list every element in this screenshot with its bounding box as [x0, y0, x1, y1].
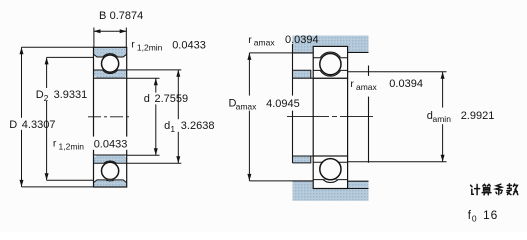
arrow D2 bottom — [45, 173, 49, 180]
arrow d bottom — [154, 148, 158, 155]
extension lines d1 — [127, 70, 182, 163]
svg-text:d: d — [144, 93, 150, 105]
outer ring lower (blue) — [94, 161, 127, 187]
housing lower (blue) — [293, 181, 369, 201]
label d 2.7559 — [142, 93, 188, 105]
svg-text:amax: amax — [236, 102, 258, 112]
arrow damin bottom — [441, 155, 445, 162]
label damin 2.9921 — [425, 108, 495, 125]
svg-text:D: D — [36, 89, 44, 101]
label D 4.3307 — [8, 118, 56, 131]
bearing side faces (middle verticals) — [313, 78, 347, 156]
label d1 3.2638 — [163, 119, 217, 134]
arrow D bottom — [20, 180, 24, 187]
label B 0.7874 — [99, 10, 143, 22]
svg-text:amin: amin — [433, 114, 452, 124]
label r1,2min 0.0433 (top) — [131, 39, 206, 53]
svg-text:d: d — [164, 120, 170, 132]
label Damax 4.0945 — [227, 96, 301, 112]
dimension line D2 — [46, 57, 48, 180]
svg-text:0.0433: 0.0433 — [94, 139, 128, 151]
svg-text:D: D — [9, 119, 17, 131]
housing upper (blue) — [293, 36, 369, 53]
svg-text:0.0433: 0.0433 — [172, 39, 206, 51]
bearing lower section (right drawing) — [313, 156, 347, 189]
arrow d1 bottom — [176, 156, 180, 163]
bore line upper — [94, 77, 127, 79]
shaft shoulder upper left (blue) — [293, 70, 311, 78]
label r1,2min 0.0433 (lower) — [52, 137, 130, 152]
svg-text:r: r — [350, 78, 354, 90]
svg-text:4.3307: 4.3307 — [22, 119, 56, 131]
svg-text:1: 1 — [170, 124, 175, 134]
extension lines damin — [348, 72, 447, 162]
label ramax 0.0394 (right) — [349, 76, 423, 92]
shaft bore line upper — [293, 77, 348, 79]
svg-text:1,2min: 1,2min — [59, 141, 85, 151]
label D2 3.9331 — [34, 88, 87, 103]
dimension line B — [94, 30, 127, 32]
bearing outline box — [94, 47, 127, 187]
arrow d top — [154, 78, 158, 85]
svg-text:B: B — [99, 10, 106, 22]
extension lines d — [127, 78, 160, 155]
label f0 16 — [468, 208, 499, 224]
figure right boundary segments — [368, 66, 370, 163]
extension lines D — [22, 47, 94, 187]
extension lines Damax — [249, 53, 292, 181]
arrow B left — [94, 29, 101, 33]
svg-text:r: r — [131, 39, 135, 51]
svg-text:2.7559: 2.7559 — [155, 93, 189, 105]
arrow D top — [20, 47, 24, 54]
svg-text:amax: amax — [254, 38, 276, 48]
dimension line damin — [442, 72, 444, 162]
svg-text:4.0945: 4.0945 — [266, 98, 300, 110]
glyph suan — [483, 184, 490, 186]
extension lines D2 — [47, 57, 94, 180]
outer ring upper (blue) — [94, 47, 127, 73]
centerline left bearing — [88, 116, 132, 118]
label ramax 0.0394 (top) — [248, 34, 318, 48]
svg-text:0.7874: 0.7874 — [110, 10, 144, 22]
arrow Damax bottom — [247, 174, 251, 181]
shaft shoulder lower left (blue) — [293, 156, 311, 163]
arrow d1 top — [176, 70, 180, 77]
svg-text:2: 2 — [44, 93, 49, 103]
inner ring upper (blue) — [94, 54, 127, 79]
svg-text:0: 0 — [472, 214, 477, 224]
svg-text:3.9331: 3.9331 — [54, 89, 88, 101]
glyph ji — [471, 185, 474, 194]
dimension line d1 — [177, 70, 179, 164]
arrow damin top — [441, 72, 445, 79]
bearing upper section (right drawing) — [313, 46, 347, 78]
ball lower — [102, 162, 119, 179]
arrow Damax top — [247, 53, 251, 60]
shaft bore line lower — [293, 155, 348, 157]
glyph shu — [507, 184, 512, 195]
bore line lower — [94, 154, 127, 156]
svg-text:2.9921: 2.9921 — [461, 110, 495, 122]
figure left boundary — [292, 44, 294, 163]
svg-text:0.0394: 0.0394 — [285, 34, 319, 46]
svg-text:3.2638: 3.2638 — [181, 120, 215, 132]
ball upper — [102, 55, 119, 72]
dimension line D — [21, 47, 23, 187]
glyph xi — [496, 184, 502, 190]
svg-text:r: r — [248, 34, 252, 46]
dimension B extension lines — [94, 28, 126, 48]
dimension line d — [155, 78, 157, 155]
svg-text:0.0394: 0.0394 — [389, 78, 423, 90]
arrow D2 top — [45, 57, 49, 64]
inner ring lower (blue) — [94, 155, 127, 181]
centerline right drawing — [287, 116, 373, 118]
svg-text:amax: amax — [356, 82, 378, 92]
label: calculation factors (CJK, drawn strokes) — [471, 184, 518, 195]
svg-text:16: 16 — [483, 208, 498, 222]
arrow B right — [120, 29, 127, 33]
svg-text:r: r — [53, 137, 57, 149]
svg-text:1,2min: 1,2min — [137, 43, 163, 53]
dimension line Damax — [248, 53, 250, 181]
